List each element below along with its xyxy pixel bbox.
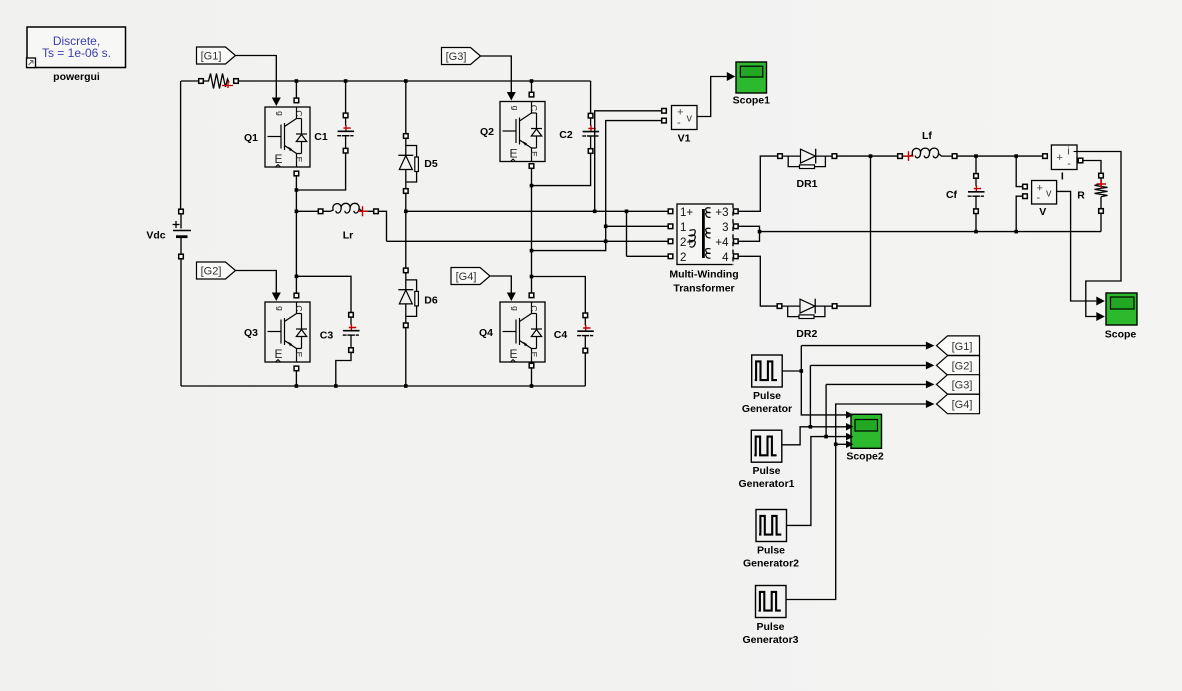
svg-text:[G4]: [G4]	[952, 399, 973, 411]
wire V- tap	[1016, 196, 1023, 231]
from tag [G1]	[197, 47, 236, 64]
svg-text:D5: D5	[424, 158, 438, 170]
wire output top rail	[957, 154, 1043, 158]
svg-text:Multi-Winding: Multi-Winding	[669, 269, 738, 281]
capacitor Cf	[946, 156, 985, 232]
svg-text:Vdc: Vdc	[146, 230, 165, 242]
svg-text:D6: D6	[424, 295, 438, 307]
wire winding 1- row	[604, 225, 669, 229]
svg-text:Pulse: Pulse	[757, 545, 785, 557]
wire C3 bottom to rail	[334, 352, 351, 388]
svg-text:Scope: Scope	[1105, 329, 1137, 341]
transformer Multi-Winding	[668, 204, 738, 295]
inductor Lr	[318, 203, 378, 241]
inductor Lf	[898, 130, 957, 161]
wire C2 bottom to right leg	[532, 153, 591, 186]
wire C4 top link	[532, 277, 586, 314]
svg-text:DR2: DR2	[796, 328, 817, 340]
wire winding 2- row	[627, 255, 669, 257]
svg-text:Cf: Cf	[946, 189, 958, 201]
wire V1+ sense riser	[595, 111, 662, 212]
wire Pulse Generator out	[782, 369, 803, 373]
svg-text:+: +	[1057, 152, 1063, 164]
wire Q1 collector riser	[295, 79, 299, 98]
svg-text:-: -	[1067, 158, 1071, 170]
svg-text:Q1: Q1	[244, 132, 258, 144]
wire left leg to Lr	[296, 210, 318, 212]
wire D6 to bottom rail	[404, 327, 408, 387]
svg-text:Q3: Q3	[244, 327, 258, 339]
pulse generator (Pulse Generator3)	[742, 586, 798, 647]
wire V+ tap	[1016, 156, 1023, 187]
wire V1- sense riser	[606, 121, 662, 242]
wire to goto [G1] and Scope2 in1	[801, 342, 934, 415]
svg-text:[G3]: [G3]	[446, 51, 467, 63]
capacitor C1	[314, 113, 354, 153]
svg-text:-: -	[1037, 192, 1041, 204]
svg-text:v: v	[1046, 188, 1052, 200]
svg-text:C1: C1	[314, 131, 328, 143]
diode DR2	[777, 299, 837, 340]
svg-text:DR1: DR1	[796, 178, 817, 190]
wire bottom DC rail	[181, 385, 585, 387]
svg-text:Q4: Q4	[479, 327, 493, 339]
svg-text:Lr: Lr	[343, 230, 354, 242]
svg-text:V1: V1	[678, 133, 691, 145]
transistor Q4 (IGBT)	[479, 293, 545, 368]
transistor Q1 (IGBT)	[244, 98, 310, 176]
svg-text:3: 3	[722, 222, 728, 234]
svg-text:V: V	[1039, 206, 1046, 218]
svg-text:Scope1: Scope1	[733, 95, 771, 107]
wire Pulse Generator1 to goto [G2] and Scope2 in2	[782, 361, 935, 444]
wire Pulse Generator3 to goto [G4] and Scope2 in4	[786, 400, 934, 600]
svg-text:Generator: Generator	[742, 403, 792, 415]
goto tag [G3]	[937, 375, 980, 394]
svg-text:Generator2: Generator2	[743, 558, 799, 570]
resistor R series branch	[199, 74, 239, 89]
wire C1 top riser	[344, 79, 348, 113]
wire I- to load R	[1083, 161, 1101, 174]
wire winding 2+ row	[387, 240, 669, 244]
svg-text:-: -	[677, 117, 681, 129]
svg-text:Ts = 1e-06 s.: Ts = 1e-06 s.	[42, 46, 111, 60]
wire right leg to 2+ node	[532, 243, 606, 251]
wire [G4] to Q4 gate	[491, 276, 516, 301]
wire DR2 riser to output rail	[837, 156, 871, 306]
resistor R (load)	[1077, 173, 1107, 213]
svg-text:4: 4	[722, 252, 729, 264]
svg-text:Generator1: Generator1	[738, 478, 794, 490]
svg-text:Pulse: Pulse	[752, 465, 780, 477]
from tag [G3]	[442, 48, 481, 65]
wire [G3] to Q2 gate	[481, 56, 516, 101]
svg-text:[G1]: [G1]	[201, 51, 222, 63]
wire D5 to D6 / clamp node	[404, 193, 408, 268]
svg-text:Generator3: Generator3	[742, 634, 798, 646]
wire Lr to 2+ row	[378, 211, 386, 241]
voltage measurement V1	[662, 106, 697, 145]
scope Scope1	[733, 62, 771, 107]
svg-text:I: I	[1061, 171, 1064, 183]
wire Vdc minus to bottom rail	[180, 259, 182, 387]
wire V1 to Scope1	[697, 72, 735, 117]
svg-text:i: i	[1067, 146, 1069, 158]
capacitor C3	[320, 313, 360, 353]
svg-text:C3: C3	[320, 330, 334, 342]
svg-text:v: v	[687, 113, 693, 125]
svg-text:powergui: powergui	[53, 71, 100, 83]
wire D5 top riser	[404, 79, 408, 134]
powergui block	[27, 27, 126, 83]
svg-text:1: 1	[680, 222, 686, 234]
wire winding 4- to DR2	[738, 256, 778, 306]
svg-text:Q2: Q2	[480, 126, 494, 138]
svg-text:R: R	[1077, 190, 1085, 202]
voltage source Vdc	[146, 209, 191, 259]
pulse generator (Pulse Generator)	[742, 355, 792, 415]
wire winding 3+ to DR1	[738, 156, 778, 211]
wire Q4 emitter to bottom rail	[530, 368, 534, 388]
scope Scope2	[846, 411, 884, 462]
wire DR1 to Lf	[837, 154, 898, 158]
wire Pulse Generator2 to goto [G3] and Scope2 in3	[787, 380, 935, 525]
scope Scope	[1105, 293, 1137, 341]
svg-text:2+: 2+	[680, 237, 693, 249]
svg-text:[G2]: [G2]	[201, 266, 222, 278]
current measurement I	[1043, 145, 1083, 183]
svg-text:Scope2: Scope2	[846, 451, 884, 463]
wire link 1+ to 2-	[626, 211, 628, 256]
svg-text:Transformer: Transformer	[673, 283, 734, 295]
wire I signal to Scope	[1077, 152, 1121, 322]
capacitor C4	[554, 313, 594, 353]
svg-text:C2: C2	[559, 129, 573, 141]
goto tag [G1]	[937, 336, 980, 355]
capacitor C2	[559, 113, 599, 153]
wire winding 3- to centre tap	[738, 226, 760, 231]
diode DR1	[778, 149, 837, 190]
svg-text:+4: +4	[715, 237, 729, 249]
wire C4 bottom / rail corner	[584, 353, 586, 386]
voltage measurement V	[1023, 181, 1057, 219]
svg-text:1+: 1+	[680, 207, 693, 219]
svg-text:C4: C4	[554, 329, 568, 341]
svg-text:[G1]: [G1]	[952, 341, 973, 353]
wire V signal to Scope	[1057, 191, 1105, 305]
wire C3 top link	[296, 276, 351, 312]
wire C1 bottom to left leg	[296, 153, 345, 190]
wire Q1 emitter / left leg	[295, 176, 299, 294]
wire Q3 emitter to bottom rail	[295, 371, 299, 388]
svg-text:2: 2	[680, 252, 686, 264]
svg-text:[G3]: [G3]	[952, 380, 973, 392]
diode D5	[398, 134, 438, 194]
pulse generator (Pulse Generator2)	[743, 510, 799, 570]
wire [G2] to Q3 gate	[236, 271, 281, 302]
svg-text:Lf: Lf	[922, 130, 932, 142]
svg-text:Pulse: Pulse	[753, 390, 781, 402]
transistor Q3 (IGBT)	[244, 293, 310, 371]
svg-text:Pulse: Pulse	[756, 621, 784, 633]
wire top rail corner to C2	[590, 81, 592, 114]
from tag [G2]	[197, 262, 236, 279]
wire Q2 collector riser	[530, 79, 534, 92]
wire top DC rail	[181, 81, 591, 210]
svg-text:[G4]: [G4]	[456, 271, 477, 283]
wire winding 4+ to centre tap	[738, 230, 761, 242]
wire clamp node to winding 1+	[406, 210, 669, 214]
svg-text:[G2]: [G2]	[952, 361, 973, 373]
pulse generator (Pulse Generator1)	[738, 430, 794, 490]
wire R to bottom rail	[1100, 213, 1102, 232]
diode D6	[398, 268, 438, 328]
wire [G1] to Q1 gate	[236, 56, 281, 107]
goto tag [G2]	[937, 356, 980, 375]
wire output bottom rail (centre tap)	[760, 230, 1102, 234]
wire Q2 emitter / right leg	[530, 168, 534, 293]
from tag [G4]	[451, 268, 490, 285]
transistor Q2 (IGBT)	[480, 92, 545, 168]
goto tag [G4]	[937, 394, 980, 413]
svg-text:+3: +3	[715, 207, 728, 219]
